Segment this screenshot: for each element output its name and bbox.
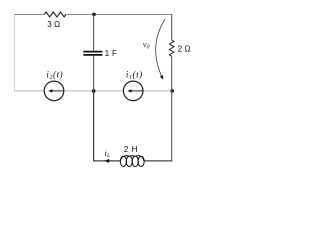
- svg-text:3 Ω: 3 Ω: [47, 20, 60, 29]
- svg-text:i2(t): i2(t): [46, 69, 63, 81]
- svg-text:2 Ω: 2 Ω: [178, 45, 191, 54]
- svg-text:1 F: 1 F: [105, 49, 118, 58]
- svg-text:2 H: 2 H: [124, 145, 138, 154]
- svg-text:i1(t): i1(t): [126, 69, 143, 81]
